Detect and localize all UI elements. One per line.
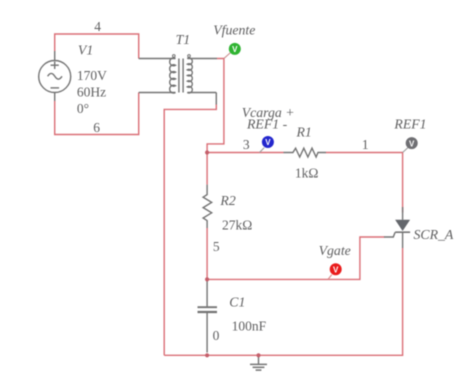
svg-text:V1: V1 (78, 43, 93, 58)
junction node 5 (205, 277, 209, 281)
svg-text:Vgate: Vgate (319, 243, 351, 258)
wire secondary bottom to left rail (164, 104, 216, 355)
svg-text:170V: 170V (77, 68, 107, 83)
svg-text:V: V (333, 266, 339, 275)
svg-text:1kΩ: 1kΩ (295, 166, 319, 181)
svg-text:V: V (409, 139, 415, 148)
svg-text:V: V (265, 138, 271, 147)
junction node 0 at ground (256, 353, 260, 357)
svg-text:0°: 0° (77, 101, 89, 116)
probe Vgate (red) (328, 263, 342, 279)
probe Vfuente (224, 43, 241, 59)
wire gate net: SCR gate to node 5 (207, 237, 384, 279)
svg-text:REF1 -: REF1 - (246, 117, 288, 132)
svg-text:0: 0 (213, 328, 220, 343)
svg-text:27kΩ: 27kΩ (222, 217, 252, 232)
svg-text:C1: C1 (229, 294, 245, 309)
svg-text:R2: R2 (219, 193, 235, 208)
SCR SCR_A (384, 207, 410, 248)
wire net6 bottom: V1 minus to primary bottom (55, 93, 139, 135)
wire node 5: R2 bottom to junction (206, 228, 208, 279)
junction node 0 at C1 (205, 353, 209, 357)
ground (250, 355, 267, 370)
resistor R2 (203, 185, 212, 228)
svg-text:V: V (232, 45, 238, 54)
wire node 3 vertical to R2 (206, 153, 208, 185)
resistor R1 (284, 148, 327, 157)
wire secondary top to Vfuente corner and down to node 3 (207, 59, 224, 153)
capacitor C1 (198, 279, 218, 352)
svg-text:3: 3 (243, 137, 250, 152)
svg-text:Vfuente: Vfuente (213, 22, 255, 37)
wire net4 top: V1 plus to primary top (55, 34, 139, 59)
probe REF1 (gray) (403, 137, 418, 152)
svg-text:4: 4 (94, 19, 101, 34)
voltage source V1 (39, 51, 71, 101)
svg-text:T1: T1 (176, 32, 191, 47)
svg-text:SCR_A: SCR_A (414, 227, 454, 242)
transformer T1 (139, 55, 217, 105)
svg-text:REF1: REF1 (393, 116, 426, 131)
svg-text:60Hz: 60Hz (77, 85, 106, 100)
svg-text:1: 1 (362, 137, 369, 152)
junction node 3 (205, 150, 209, 154)
svg-text:6: 6 (93, 120, 100, 135)
wire node 1: R1 to SCR anode (326, 153, 403, 213)
wire node 3 horizontal to R1 (207, 152, 283, 154)
probe Vcarga/REF1 (blue, node 3) (260, 136, 274, 153)
svg-text:5: 5 (213, 239, 220, 254)
wire bottom net 0 (164, 248, 402, 355)
svg-text:R1: R1 (296, 125, 312, 140)
svg-text:100nF: 100nF (232, 319, 267, 334)
